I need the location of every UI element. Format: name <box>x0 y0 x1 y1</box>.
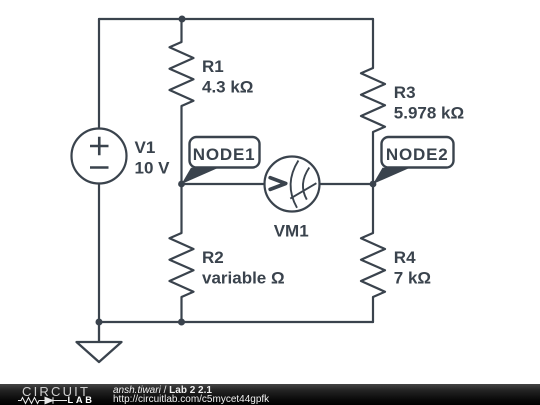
wire R2 bottom lead <box>180 297 182 322</box>
wire left rail lower (V1 to bottom rail) <box>98 184 100 323</box>
wire R1 top lead <box>180 19 182 42</box>
resistor R2 <box>170 233 194 297</box>
junction dot NODE2 <box>370 181 377 188</box>
junction dot bottom R2 <box>178 319 185 326</box>
junction dot bottom left <box>96 319 103 326</box>
svg-text:V1: V1 <box>135 138 156 157</box>
junction dot top rail <box>179 16 186 23</box>
wire R1 bottom to R2 top (through NODE1) <box>180 106 182 233</box>
CircuitLab logo text LAB <box>68 396 95 405</box>
svg-text:5.978 kΩ: 5.978 kΩ <box>394 103 464 122</box>
node NODE1 callout <box>182 137 260 184</box>
wire R3 bottom to R4 top (through NODE2) <box>372 132 374 233</box>
svg-text:R1: R1 <box>202 57 224 76</box>
resistor R4 <box>361 233 385 297</box>
svg-text:R4: R4 <box>394 248 416 267</box>
svg-text:VM1: VM1 <box>274 221 309 240</box>
svg-text:7 kΩ: 7 kΩ <box>394 269 431 288</box>
svg-text:NODE1: NODE1 <box>193 145 256 164</box>
CircuitLab logo text CIRCUIT <box>22 386 90 397</box>
svg-text:R3: R3 <box>394 83 416 102</box>
wire bottom rail <box>99 321 373 323</box>
label V1 value <box>135 138 171 177</box>
label R2 value <box>202 248 285 287</box>
junction dot NODE1 <box>178 181 185 188</box>
wire top rail <box>99 18 373 20</box>
svg-text:variable Ω: variable Ω <box>202 269 285 288</box>
resistor R3 <box>361 68 385 132</box>
footer line 1: author / title <box>113 386 212 396</box>
footer bar <box>0 384 540 405</box>
label R4 value <box>394 248 431 287</box>
voltage source V1 <box>72 129 127 184</box>
label R1 value <box>202 57 253 96</box>
voltmeter VM1 <box>265 157 320 212</box>
svg-text:NODE2: NODE2 <box>386 145 449 164</box>
svg-text:R2: R2 <box>202 248 224 267</box>
wire R4 bottom lead <box>372 297 374 322</box>
ground <box>77 322 122 362</box>
svg-text:10 V: 10 V <box>135 158 171 177</box>
footer line 2: url text <box>113 395 269 405</box>
wire R3 top lead <box>372 19 374 68</box>
svg-text:4.3 kΩ: 4.3 kΩ <box>202 77 253 96</box>
resistor R1 <box>170 42 194 106</box>
label VM1 <box>274 221 309 240</box>
CircuitLab logo schematic (resistor + diode) <box>18 396 70 405</box>
wire NODE1 to voltmeter <box>182 183 265 185</box>
label R3 value <box>394 83 464 122</box>
wire voltmeter to NODE2 <box>320 183 374 185</box>
node NODE2 callout <box>373 137 454 184</box>
wire left rail upper (top rail to V1) <box>98 19 100 129</box>
